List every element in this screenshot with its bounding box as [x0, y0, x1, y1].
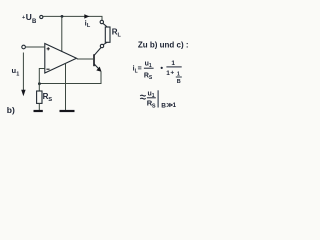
terminal RL top — [100, 20, 103, 23]
formula ≈ u1/RS | B&gt;&gt;1 — [140, 90, 176, 109]
svg-text:1: 1 — [171, 60, 175, 67]
terminal input — [22, 45, 26, 49]
resistor RL — [105, 27, 110, 42]
resistor RS — [37, 91, 42, 103]
voltage arrow u1 — [22, 53, 24, 92]
wire base — [77, 58, 94, 60]
junction supply node — [61, 15, 64, 18]
terminal UB — [40, 15, 43, 18]
svg-text:Zu b) und c) :: Zu b) und c) : — [138, 41, 189, 50]
svg-text:+: + — [170, 70, 174, 77]
wire RS bottom — [38, 103, 40, 110]
svg-text:1: 1 — [173, 102, 177, 109]
ground op-amp — [60, 110, 75, 112]
wire emitter feedback — [39, 71, 101, 83]
transistor Q1 — [94, 54, 102, 72]
current arrow iL — [84, 14, 89, 18]
svg-text:U: U — [26, 12, 32, 22]
op-amp U1 — [45, 44, 77, 74]
svg-text:=: = — [138, 65, 142, 72]
terminal RL bottom — [100, 44, 103, 47]
wire RL bottom stub — [103, 42, 107, 45]
wire op-amp V- to ground — [65, 63, 67, 110]
svg-text:b): b) — [7, 105, 15, 115]
wire to RL — [103, 23, 107, 27]
svg-text:1: 1 — [177, 71, 180, 77]
wire non-inverting input — [26, 46, 45, 48]
svg-text:B: B — [32, 19, 37, 25]
svg-text:S: S — [48, 97, 52, 103]
formula iL = u1/RS · 1/(1+1/B) — [133, 60, 182, 85]
wire UB top rail — [43, 16, 102, 20]
wire inverting input — [39, 69, 45, 84]
svg-text:1: 1 — [16, 71, 19, 77]
wire RS top — [38, 84, 40, 91]
wire collector — [94, 48, 101, 56]
svg-text:S: S — [152, 103, 156, 109]
junction node E — [38, 82, 41, 85]
svg-text:B: B — [177, 79, 181, 85]
ground RS — [34, 110, 43, 112]
wire op-amp V+ supply — [61, 16, 63, 51]
